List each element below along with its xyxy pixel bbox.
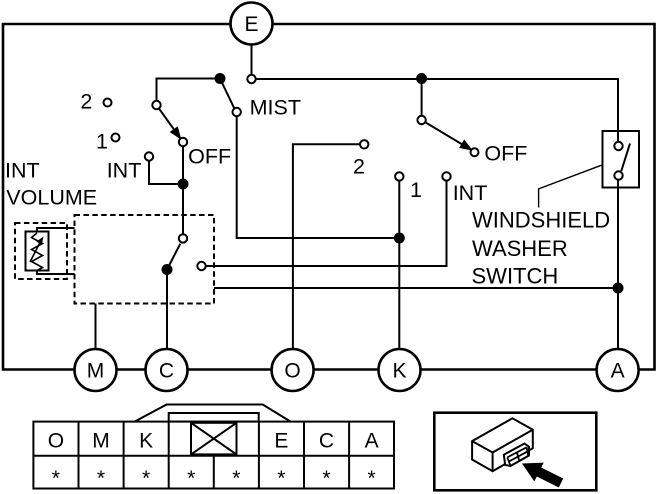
svg-text:E: E <box>274 430 288 453</box>
wire A drop <box>617 180 619 349</box>
wire OFF drop <box>182 146 184 234</box>
connector C <box>146 349 188 391</box>
wire M drop <box>95 304 97 350</box>
svg-text:C: C <box>319 430 334 453</box>
svg-text:*: * <box>322 467 330 490</box>
node 2 contact right <box>360 140 368 148</box>
connector A <box>597 349 639 391</box>
svg-text:WINDSHIELD: WINDSHIELD <box>472 208 610 233</box>
svg-text:INT: INT <box>5 158 40 182</box>
pot body R <box>26 232 49 271</box>
node OFF contact right <box>471 148 479 156</box>
pot zigzag <box>32 233 43 271</box>
node INT contact left <box>145 152 153 160</box>
svg-text:SWITCH: SWITCH <box>472 264 559 289</box>
wire washer contact to INT contact <box>206 181 447 266</box>
table raised box <box>169 413 259 422</box>
wire INT jog <box>149 161 183 184</box>
junction dot right switch <box>417 74 426 83</box>
node E contact <box>247 75 255 83</box>
svg-text:2: 2 <box>353 155 365 179</box>
svg-text:M: M <box>87 360 105 383</box>
svg-text:A: A <box>611 360 625 383</box>
node washer contact <box>197 262 205 270</box>
wire MIST drop to bus <box>237 116 400 238</box>
leader line windshield washer switch <box>539 165 603 208</box>
relay icon box <box>434 413 596 491</box>
relay body <box>472 418 533 471</box>
svg-text:A: A <box>365 430 379 453</box>
relay arrow <box>522 463 563 488</box>
svg-text:1: 1 <box>96 130 108 154</box>
wire wiper feed <box>157 79 221 102</box>
pot wiper arrow <box>30 243 40 263</box>
connector pin table <box>33 405 394 489</box>
table hood <box>135 405 291 422</box>
svg-text:M: M <box>92 430 110 453</box>
svg-text:*: * <box>142 467 150 490</box>
svg-text:K: K <box>139 430 153 453</box>
svg-text:O: O <box>48 430 64 453</box>
svg-text:E: E <box>244 13 258 36</box>
svg-text:*: * <box>97 467 105 490</box>
svg-text:MIST: MIST <box>250 96 301 120</box>
connector O <box>272 349 314 391</box>
wire C drop <box>166 270 168 350</box>
node 1 contact right <box>395 172 403 180</box>
pot terminal top <box>37 228 75 232</box>
table grid <box>33 422 394 489</box>
node INT contact right <box>442 172 450 180</box>
wire C arm <box>167 244 180 270</box>
relay socket port <box>504 444 529 466</box>
node wiper arm top <box>152 101 160 109</box>
svg-text:*: * <box>368 467 376 490</box>
svg-text:INT: INT <box>107 158 142 182</box>
svg-text:2: 2 <box>80 90 92 114</box>
wire 2 contact to O <box>293 144 360 349</box>
pot dashed box <box>15 223 67 279</box>
wire MIST arm <box>220 79 234 109</box>
outer frame <box>3 24 655 370</box>
svg-text:1: 1 <box>410 178 422 202</box>
svg-text:OFF: OFF <box>484 142 527 166</box>
wire washer bus to A <box>214 287 618 289</box>
junction dot INT join <box>179 180 188 189</box>
svg-text:*: * <box>232 467 240 490</box>
svg-text:WASHER: WASHER <box>472 236 568 261</box>
connector E <box>231 3 273 45</box>
node right arm pivot <box>417 116 425 124</box>
svg-text:K: K <box>392 360 406 383</box>
connector M <box>75 349 117 391</box>
connector K <box>379 349 421 391</box>
arrowhead right switch arm <box>461 141 471 149</box>
wire E stem <box>251 44 253 75</box>
svg-text:INT: INT <box>453 181 488 205</box>
junction dot wiper pivot <box>216 74 225 83</box>
wire wiper arm <box>159 109 176 132</box>
table key box with X <box>191 423 237 455</box>
junction dot 1-K bus <box>395 234 404 243</box>
svg-text:VOLUME: VOLUME <box>6 185 97 209</box>
node arm lower contact <box>179 234 187 242</box>
svg-text:OFF: OFF <box>188 144 231 168</box>
node washer switch top <box>614 142 622 150</box>
washer switch arm <box>621 144 630 172</box>
node 2 contact left <box>104 99 112 107</box>
svg-text:*: * <box>52 467 60 490</box>
node washer switch bottom <box>614 171 622 179</box>
switch dashed box <box>75 215 215 304</box>
wire right switch arm <box>425 122 463 145</box>
pot terminal bottom <box>37 270 75 274</box>
wire right switch feed <box>421 83 423 116</box>
node 1 contact left <box>112 134 120 142</box>
svg-text:C: C <box>159 360 174 383</box>
wire E bus to washer switch <box>256 79 618 142</box>
washer switch box <box>603 131 640 188</box>
pot wiper arrowhead <box>36 237 43 245</box>
svg-text:O: O <box>284 360 300 383</box>
node OFF contact left <box>179 138 187 146</box>
svg-text:*: * <box>277 467 285 490</box>
junction dot C pivot <box>163 265 172 274</box>
svg-text:*: * <box>187 467 195 490</box>
arrowhead wiper arm <box>171 128 179 138</box>
junction dot A bus <box>614 284 623 293</box>
node MIST contact <box>233 108 241 116</box>
wire K drop <box>398 181 400 349</box>
